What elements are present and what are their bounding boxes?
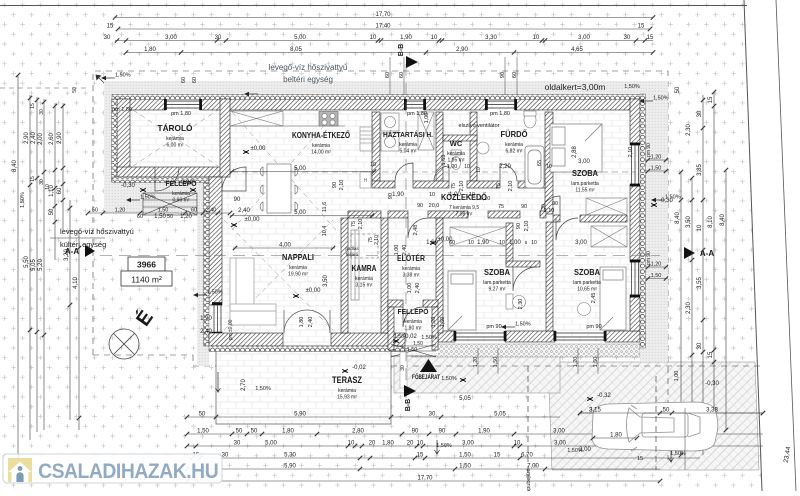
dining chairs xyxy=(260,167,298,211)
svg-text:3,00: 3,00 xyxy=(578,159,590,165)
wall furdo right / szoba left xyxy=(545,112,553,214)
svg-text:90: 90 xyxy=(412,428,419,434)
logo text xyxy=(38,459,218,483)
left dim col 7 xyxy=(68,200,72,420)
svg-text:1,80: 1,80 xyxy=(382,440,394,446)
svg-text:8,40: 8,40 xyxy=(675,212,681,224)
svg-text:3,15: 3,15 xyxy=(589,407,601,413)
wall kamra/eloter xyxy=(381,218,388,333)
svg-text:±0,00: ±0,00 xyxy=(251,146,267,152)
svg-text:30: 30 xyxy=(697,342,703,349)
right dim col 2 xyxy=(690,176,694,440)
svg-text:1,50: 1,50 xyxy=(197,428,209,434)
corridor top wall xyxy=(372,181,395,188)
svg-text:75: 75 xyxy=(498,204,504,210)
svg-text:20: 20 xyxy=(407,440,414,446)
nappali width dim xyxy=(233,246,335,250)
svg-text:2,10: 2,10 xyxy=(628,147,634,158)
svg-text:15: 15 xyxy=(30,176,36,182)
svg-text:1,00: 1,00 xyxy=(509,240,521,246)
svg-text:2,40: 2,40 xyxy=(402,245,408,256)
section A-A left xyxy=(85,245,95,257)
left dim col 1 xyxy=(16,73,20,459)
svg-text:-0,32: -0,32 xyxy=(597,393,611,399)
svg-text:kerámia: kerámia xyxy=(289,265,307,271)
bottom dimension row 4 xyxy=(185,467,660,471)
svg-text:2,90: 2,90 xyxy=(57,132,63,144)
sofa xyxy=(230,258,276,325)
hob xyxy=(319,112,338,127)
wc toilet xyxy=(451,150,461,170)
svg-text:10: 10 xyxy=(431,35,438,41)
svg-text:65: 65 xyxy=(537,160,543,166)
svg-text:30: 30 xyxy=(697,110,703,117)
svg-text:3,55: 3,55 xyxy=(697,277,703,289)
svg-text:2,40: 2,40 xyxy=(415,283,421,294)
svg-text:kerámia: kerámia xyxy=(402,266,420,272)
svg-text:3,50: 3,50 xyxy=(323,275,329,287)
svg-text:30: 30 xyxy=(234,440,241,446)
svg-text:3,00: 3,00 xyxy=(462,440,474,446)
svg-text:3,38: 3,38 xyxy=(706,407,718,413)
svg-text:60: 60 xyxy=(385,72,391,78)
building floor slab xyxy=(117,95,640,355)
door main entrance xyxy=(403,307,423,327)
svg-text:30: 30 xyxy=(39,179,45,185)
svg-text:5,05: 5,05 xyxy=(494,411,506,417)
svg-text:kerámia: kerámia xyxy=(505,142,523,148)
svg-text:90: 90 xyxy=(500,72,506,78)
kitchen counter xyxy=(230,125,345,127)
svg-text:10: 10 xyxy=(468,240,474,246)
svg-text:2,10: 2,10 xyxy=(480,196,491,202)
svg-text:50: 50 xyxy=(663,407,670,413)
left dim col 4 xyxy=(42,99,46,430)
svg-text:10: 10 xyxy=(45,184,51,190)
svg-text:5,30: 5,30 xyxy=(284,452,296,458)
washbasin furdo xyxy=(477,142,489,154)
right window 2 xyxy=(632,262,639,295)
H unit xyxy=(360,172,371,188)
kamra shelf xyxy=(351,230,359,300)
svg-text:-0,30: -0,30 xyxy=(121,183,135,189)
svg-text:1,20: 1,20 xyxy=(180,214,192,220)
svg-text:padlás: padlás xyxy=(345,246,359,251)
svg-text:5,05: 5,05 xyxy=(31,259,37,271)
svg-text:WC: WC xyxy=(450,139,463,148)
svg-text:SZOBA: SZOBA xyxy=(572,168,598,178)
svg-text:5,05: 5,05 xyxy=(459,396,471,402)
svg-text:-0,02: -0,02 xyxy=(403,334,417,340)
svg-text:1,20: 1,20 xyxy=(200,316,212,322)
wc niche wall xyxy=(443,135,477,141)
svg-text:1,90: 1,90 xyxy=(477,240,489,246)
exterior wall right xyxy=(630,99,640,145)
svg-text:8,40: 8,40 xyxy=(720,214,726,226)
svg-text:1,20: 1,20 xyxy=(651,154,662,160)
section B-B top xyxy=(406,56,418,68)
svg-text:1,50: 1,50 xyxy=(154,214,166,220)
svg-text:1,50: 1,50 xyxy=(440,317,446,328)
exterior wall left lower wing xyxy=(209,177,222,305)
svg-text:1,20: 1,20 xyxy=(573,357,579,368)
right dim col 4 xyxy=(712,90,716,440)
svg-text:2,10: 2,10 xyxy=(459,181,465,192)
svg-text:10: 10 xyxy=(476,167,482,173)
svg-text:lam.parketta: lam.parketta xyxy=(483,280,511,286)
svg-text:5,90: 5,90 xyxy=(284,463,296,469)
svg-text:TERASZ: TERASZ xyxy=(332,375,362,385)
svg-text:50: 50 xyxy=(199,411,206,417)
terrace TERASZ outline xyxy=(216,346,391,424)
perimeter strip right xyxy=(640,81,668,362)
svg-text:oldalkert=3,00m: oldalkert=3,00m xyxy=(545,82,606,92)
svg-text:30: 30 xyxy=(541,204,547,210)
wall nappali/kamra xyxy=(341,218,348,333)
svg-text:CSALADIHAZAK.HU: CSALADIHAZAK.HU xyxy=(38,459,218,483)
terrace french doors xyxy=(284,310,330,333)
svg-text:17,40: 17,40 xyxy=(375,23,391,29)
svg-text:10: 10 xyxy=(546,164,552,170)
svg-text:60: 60 xyxy=(57,187,63,194)
svg-text:KAMRA: KAMRA xyxy=(352,263,377,273)
svg-text:60: 60 xyxy=(191,207,197,213)
svg-text:2,30: 2,30 xyxy=(686,302,692,314)
svg-text:3,15 m²: 3,15 m² xyxy=(356,283,373,289)
svg-text:kerámia: kerámia xyxy=(399,142,417,148)
svg-text:1,50%: 1,50% xyxy=(441,376,457,382)
svg-text:SZOBA: SZOBA xyxy=(574,267,600,277)
svg-text:FELLÉPŐ: FELLÉPŐ xyxy=(398,307,429,316)
wall wc right xyxy=(470,112,477,181)
svg-text:1,00: 1,00 xyxy=(424,113,430,124)
wardrobe szoba right xyxy=(591,226,627,247)
svg-text:5,00: 5,00 xyxy=(265,440,277,446)
svg-text:1,50: 1,50 xyxy=(158,207,169,213)
section A-A right xyxy=(684,247,695,259)
svg-text:1,50%: 1,50% xyxy=(670,451,686,457)
svg-text:5,00: 5,00 xyxy=(294,166,306,172)
svg-text:pm 1,80: pm 1,80 xyxy=(112,107,132,113)
svg-text:90: 90 xyxy=(388,193,394,199)
door haztartasi xyxy=(395,163,413,181)
svg-text:1,20: 1,20 xyxy=(651,261,662,267)
corridor stub wall vert xyxy=(506,223,513,264)
padlas feljaro dashed box xyxy=(351,234,378,258)
wardrobe szoba TR xyxy=(586,198,627,215)
dims under storage xyxy=(86,211,232,215)
svg-text:11,55 m²: 11,55 m² xyxy=(575,188,595,194)
svg-text:FŐBEJÁRAT: FŐBEJÁRAT xyxy=(412,374,440,381)
bed szoba right xyxy=(600,267,626,330)
driveway paving xyxy=(548,362,759,470)
svg-text:60: 60 xyxy=(399,72,405,78)
svg-text:2,48: 2,48 xyxy=(413,225,419,236)
svg-text:10,65 m²: 10,65 m² xyxy=(577,287,597,293)
svg-text:75: 75 xyxy=(496,183,502,189)
svg-text:3,30: 3,30 xyxy=(485,35,497,41)
svg-text:3,00: 3,00 xyxy=(554,440,566,446)
svg-text:KONYHA-ÉTKEZŐ: KONYHA-ÉTKEZŐ xyxy=(292,129,350,140)
svg-text:2,80: 2,80 xyxy=(352,428,364,434)
door szoba mid xyxy=(513,267,537,291)
bed szoba mid xyxy=(448,271,476,330)
svg-text:90: 90 xyxy=(439,428,446,434)
svg-text:50: 50 xyxy=(92,207,98,213)
haztartasi shelf xyxy=(418,112,434,150)
svg-text:1,50%: 1,50% xyxy=(255,386,271,392)
roof diagonals konyha xyxy=(133,110,336,330)
svg-text:1,90: 1,90 xyxy=(400,35,412,41)
svg-text:19,90 m²: 19,90 m² xyxy=(288,272,308,278)
konyha width dim 1 xyxy=(230,169,376,173)
svg-text:2,88: 2,88 xyxy=(572,146,578,158)
road edge line xyxy=(776,0,796,491)
svg-text:6,82 m²: 6,82 m² xyxy=(506,149,523,155)
svg-text:pm 90: pm 90 xyxy=(486,324,501,330)
window offset dims top xyxy=(390,57,517,95)
svg-text:2,10: 2,10 xyxy=(339,180,345,191)
logo house icon xyxy=(8,458,32,482)
right dim col 3 xyxy=(701,95,705,455)
bedroom window dims 2 xyxy=(578,348,598,374)
main entrance steps xyxy=(391,344,436,357)
svg-text:1,50%: 1,50% xyxy=(421,335,437,341)
svg-text:20: 20 xyxy=(369,440,376,446)
svg-text:kerámia: kerámia xyxy=(312,143,330,149)
wall szoba/szoba xyxy=(546,222,553,331)
svg-text:1,80: 1,80 xyxy=(282,428,294,434)
spot level markers xyxy=(140,188,146,191)
svg-text:10: 10 xyxy=(370,162,376,168)
corner arrow NW xyxy=(99,78,106,85)
svg-text:50: 50 xyxy=(251,428,258,434)
svg-text:60: 60 xyxy=(192,77,198,83)
left dim col 6 xyxy=(61,103,65,230)
svg-text:0,90 m²: 0,90 m² xyxy=(173,198,190,204)
svg-text:15: 15 xyxy=(417,452,424,458)
perimeter strip top xyxy=(104,81,668,96)
svg-text:2,10: 2,10 xyxy=(374,235,380,245)
window top storage pm 1,80 xyxy=(166,101,200,108)
svg-text:kerámia: kerámia xyxy=(338,388,356,394)
svg-text:30: 30 xyxy=(222,452,229,458)
svg-text:4,65: 4,65 xyxy=(571,47,583,53)
svg-text:5,04 m²: 5,04 m² xyxy=(400,149,417,155)
svg-text:15: 15 xyxy=(638,23,645,29)
svg-text:1,00: 1,00 xyxy=(447,164,458,170)
svg-text:1,50: 1,50 xyxy=(407,347,418,353)
svg-text:1,00: 1,00 xyxy=(407,283,413,294)
gravel strip below bedroom wing xyxy=(412,344,640,357)
bedroom window dims 1 xyxy=(478,348,498,374)
svg-text:±0,00: ±0,00 xyxy=(306,288,322,294)
svg-text:2,40: 2,40 xyxy=(238,208,250,214)
svg-text:14,00 m²: 14,00 m² xyxy=(311,150,331,156)
svg-text:30: 30 xyxy=(400,365,406,371)
bedroom window 1 pm 90 xyxy=(455,333,505,340)
svg-text:90: 90 xyxy=(332,182,338,188)
svg-text:NAPPALI: NAPPALI xyxy=(282,252,314,262)
bathtub xyxy=(525,146,544,188)
svg-text:pm 90: pm 90 xyxy=(646,143,652,157)
svg-text:15: 15 xyxy=(647,35,654,41)
bedroom wing bottom wall xyxy=(438,331,455,342)
door storage xyxy=(155,167,179,191)
svg-text:6,70: 6,70 xyxy=(521,452,533,458)
svg-text:2,90: 2,90 xyxy=(456,47,468,53)
fellepo stairs west xyxy=(143,193,197,215)
entrance walkway paving xyxy=(394,346,560,393)
svg-text:1,50%: 1,50% xyxy=(436,443,452,449)
right dim col 5 xyxy=(724,168,728,432)
svg-text:1,65: 1,65 xyxy=(441,155,447,166)
chair szoba mid xyxy=(506,294,526,309)
watermark logo box xyxy=(3,454,222,483)
svg-text:9,27 m²: 9,27 m² xyxy=(489,287,506,293)
eloter/fellepo wall xyxy=(388,300,403,307)
svg-text:pm 90: pm 90 xyxy=(646,251,652,265)
car xyxy=(592,402,718,451)
wall wc left xyxy=(436,112,443,181)
svg-text:2,30: 2,30 xyxy=(518,299,524,310)
svg-text:8,40: 8,40 xyxy=(12,160,18,172)
bottom dimension row 2 xyxy=(185,444,763,448)
fellepo side walls xyxy=(388,307,394,350)
svg-text:10: 10 xyxy=(514,440,521,446)
svg-text:1,50%: 1,50% xyxy=(207,290,223,296)
svg-text:1,00: 1,00 xyxy=(394,245,400,256)
svg-text:2,10: 2,10 xyxy=(524,221,530,232)
right dim col 1 xyxy=(679,170,683,457)
section B-B bottom xyxy=(404,385,416,397)
svg-text:1,50%: 1,50% xyxy=(140,195,156,201)
svg-text:1,50: 1,50 xyxy=(459,463,471,469)
svg-text:2,40: 2,40 xyxy=(31,132,37,144)
svg-text:2,40: 2,40 xyxy=(200,329,212,335)
svg-text:75: 75 xyxy=(451,183,457,189)
terrain dashed line left xyxy=(0,87,90,89)
svg-text:kerámia: kerámia xyxy=(447,151,465,157)
svg-text:kerámia: kerámia xyxy=(355,276,373,282)
right window dims xyxy=(646,158,668,162)
svg-text:1,50: 1,50 xyxy=(593,357,599,368)
svg-text:15: 15 xyxy=(107,23,114,29)
svg-text:8,10: 8,10 xyxy=(708,216,714,228)
left dim col 3 xyxy=(35,97,39,432)
svg-text:50: 50 xyxy=(49,208,55,215)
svg-text:1,80: 1,80 xyxy=(144,47,156,53)
svg-text:10: 10 xyxy=(370,35,377,41)
parking dim row over car xyxy=(578,411,765,415)
svg-text:17,70: 17,70 xyxy=(417,475,433,481)
svg-text:-0,02: -0,02 xyxy=(352,365,366,371)
svg-text:50: 50 xyxy=(675,86,681,93)
svg-text:50: 50 xyxy=(72,87,78,93)
svg-text:B-B: B-B xyxy=(405,399,412,411)
svg-text:elszívó ventilátor: elszívó ventilátor xyxy=(459,123,500,129)
svg-text:kerámia: kerámia xyxy=(404,319,422,325)
svg-text:90: 90 xyxy=(552,201,558,207)
svg-text:1,20: 1,20 xyxy=(431,317,437,328)
bottom dimension row 1 xyxy=(185,432,763,436)
svg-text:15: 15 xyxy=(708,351,714,358)
svg-text:3,00: 3,00 xyxy=(575,240,587,246)
perimeter strip left (storage) xyxy=(104,81,117,213)
roof ridge dashed line xyxy=(122,171,636,173)
svg-text:90: 90 xyxy=(234,197,241,203)
svg-text:30: 30 xyxy=(39,109,45,115)
svg-text:3,00: 3,00 xyxy=(553,428,565,434)
section line A-A dashed xyxy=(100,255,660,257)
door furdo xyxy=(500,164,517,181)
svg-text:7,08 m²: 7,08 m² xyxy=(456,212,473,218)
insulation top xyxy=(112,94,645,99)
entrance walk strip xyxy=(400,352,407,388)
svg-text:2,10: 2,10 xyxy=(508,181,514,192)
nappali bottom wall xyxy=(209,333,283,346)
svg-text:3,00: 3,00 xyxy=(578,35,590,41)
door szoba TR xyxy=(540,196,560,216)
svg-text:levegő-víz hőszivattyú: levegő-víz hőszivattyú xyxy=(269,63,348,72)
kapubejaro dashed line xyxy=(527,366,529,478)
desk chair szoba right xyxy=(578,303,591,316)
svg-text:10: 10 xyxy=(499,240,505,246)
svg-text:pm 1,80: pm 1,80 xyxy=(490,111,510,117)
corridor bottom wall xyxy=(388,211,408,218)
perimeter strip left below storage xyxy=(104,177,209,213)
svg-text:FÜRDŐ: FÜRDŐ xyxy=(501,130,528,139)
storage/kitchen divider wall xyxy=(220,99,230,177)
svg-text:3,50: 3,50 xyxy=(686,216,692,228)
svg-text:lam.parketta: lam.parketta xyxy=(573,280,601,286)
svg-text:beltéri egység: beltéri egység xyxy=(283,75,333,84)
svg-text:1,50: 1,50 xyxy=(651,273,662,279)
svg-text:kapubejáró: kapubejáró xyxy=(526,468,532,491)
svg-text:90: 90 xyxy=(521,204,527,210)
svg-text:10,4: 10,4 xyxy=(322,226,328,237)
svg-text:4,10: 4,10 xyxy=(73,277,79,289)
svg-text:-0,02: -0,02 xyxy=(179,180,193,186)
svg-text:5,50: 5,50 xyxy=(24,256,30,268)
svg-text:1,50%: 1,50% xyxy=(665,195,681,201)
left dim col 2 xyxy=(28,95,32,440)
bottom dims right short xyxy=(578,411,765,415)
svg-text:1,20: 1,20 xyxy=(115,207,126,213)
svg-text:3966: 3966 xyxy=(137,260,156,270)
svg-text:pm 90: pm 90 xyxy=(586,324,601,330)
svg-text:1,50: 1,50 xyxy=(459,452,471,458)
svg-text:2,10: 2,10 xyxy=(358,219,364,230)
svg-text:1,90: 1,90 xyxy=(392,192,404,198)
svg-text:60: 60 xyxy=(181,77,187,83)
svg-text:1,50%: 1,50% xyxy=(20,192,26,208)
svg-text:1,00: 1,00 xyxy=(674,371,680,382)
terrace bottom dims xyxy=(185,415,560,419)
svg-text:1,80 m²: 1,80 m² xyxy=(405,326,422,332)
svg-text:5,00: 5,00 xyxy=(294,35,306,41)
svg-text:30: 30 xyxy=(429,411,436,417)
svg-text:1,80: 1,80 xyxy=(610,432,622,438)
plot boundary line east xyxy=(744,0,762,491)
door wc xyxy=(434,166,449,181)
door eloter xyxy=(408,218,428,238)
slope arrows 1,50% xyxy=(101,76,115,80)
svg-text:30: 30 xyxy=(215,35,222,41)
fridge / tall unit xyxy=(360,127,373,151)
plot number 3966 xyxy=(128,257,165,271)
svg-text:kerámia: kerámia xyxy=(166,136,184,142)
